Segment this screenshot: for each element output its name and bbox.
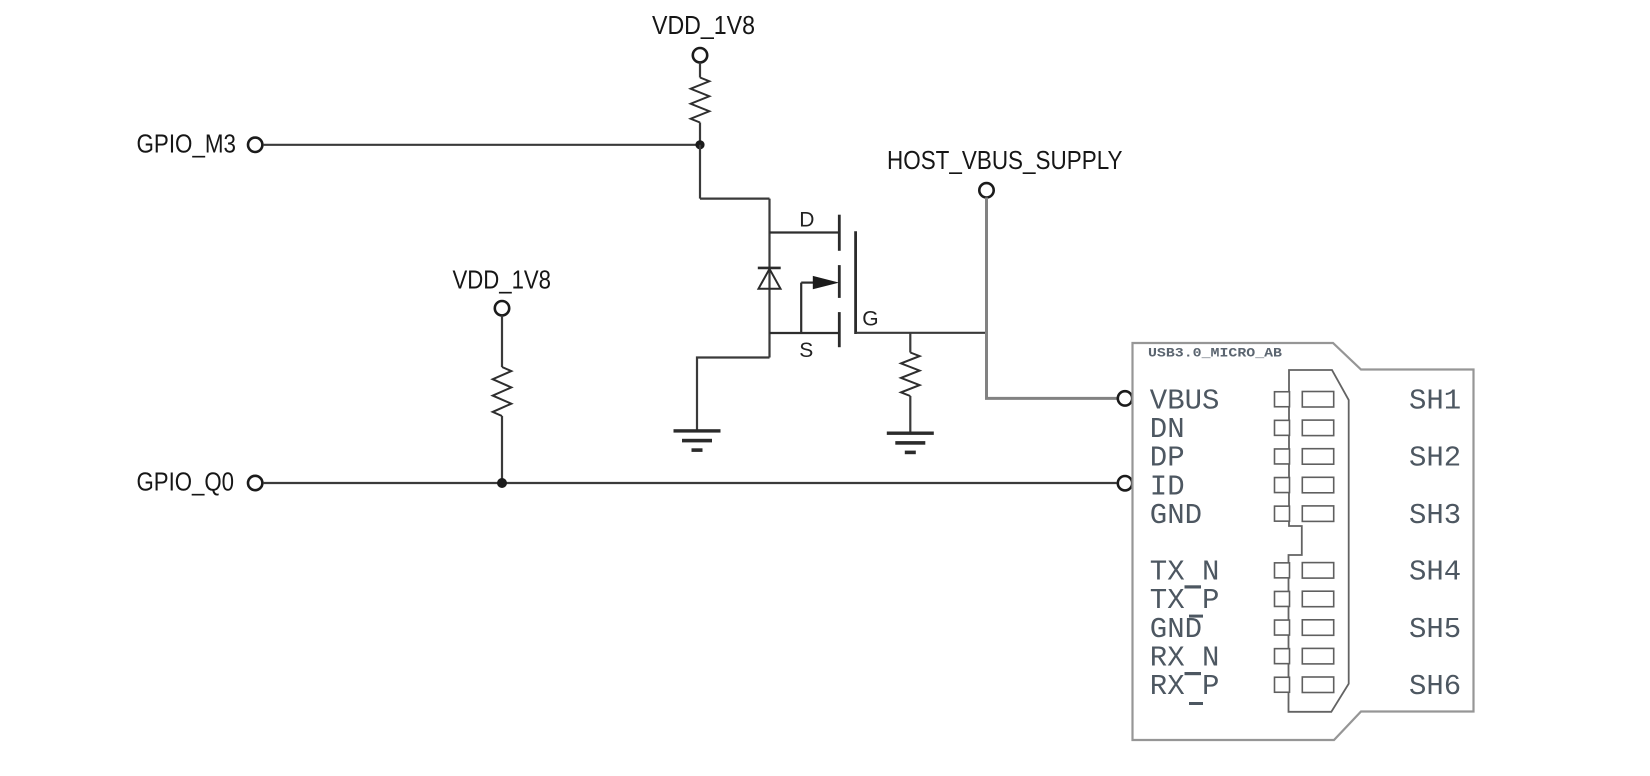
svg-text:SH1: SH1 (1409, 385, 1461, 418)
ground G2 (887, 432, 934, 435)
wire R2 to node B (501, 416, 503, 483)
pin pad DN (1275, 420, 1290, 435)
svg-text:SH2: SH2 (1409, 442, 1461, 475)
svg-text:VDD_1V8: VDD_1V8 (652, 10, 755, 40)
svg-text:S: S (799, 339, 813, 362)
transistor Q1 source lead (770, 332, 840, 334)
power terminal VDD_1V8 (top) (693, 48, 707, 62)
svg-text:GND: GND (1150, 499, 1202, 532)
svg-text:SH4: SH4 (1409, 556, 1461, 589)
wire gate to R3 (909, 333, 911, 353)
svg-text:USB3.0_MICRO_AB: USB3.0_MICRO_AB (1148, 346, 1282, 361)
svg-text:SH5: SH5 (1409, 613, 1461, 646)
wire jog to drain branch (700, 198, 770, 200)
wire gate to HOST_VBUS net (856, 332, 985, 334)
resistor R2 (493, 367, 512, 416)
wire R1 to node A (699, 123, 701, 145)
svg-text:GPIO_M3: GPIO_M3 (137, 128, 237, 158)
svg-text:D: D (799, 209, 814, 232)
pin pad VBUS (1275, 392, 1290, 407)
ground G1 (674, 429, 721, 432)
terminal HOST_VBUS_SUPPLY (979, 183, 993, 197)
resistor R1 (691, 78, 710, 123)
junction node B (497, 478, 507, 488)
pin pad TX_P (1275, 591, 1290, 606)
wire drain-source branch vertical (768, 199, 770, 358)
terminal ID pin (1118, 476, 1132, 490)
power terminal VDD_1V8 (mid) (495, 301, 509, 315)
svg-text:HOST_VBUS_SUPPLY: HOST_VBUS_SUPPLY (887, 145, 1123, 175)
wire source corner to ground (697, 358, 770, 431)
pin pad TX_N (1275, 563, 1290, 578)
svg-text:GPIO_Q0: GPIO_Q0 (137, 467, 235, 497)
pin pad GND (1275, 506, 1290, 521)
pin pad RX_P (1275, 677, 1290, 692)
wire GPIO_M3 to node A (264, 144, 700, 146)
terminal VBUS pin (1118, 391, 1132, 405)
connector J1 body outline (1133, 343, 1474, 740)
pin pad GND2 (1275, 620, 1290, 635)
wire node A down (699, 145, 701, 199)
transistor Q1 drain lead (770, 231, 840, 233)
transistor Q1 gate plate (854, 231, 857, 334)
body diode of Q1 (758, 267, 781, 270)
pin pad RX_N (1275, 649, 1290, 664)
svg-text:VDD_1V8: VDD_1V8 (453, 265, 552, 295)
pin pad ID (1275, 478, 1290, 493)
transistor Q1 channel dashes (838, 215, 841, 251)
svg-text:RX P: RX P (1150, 670, 1220, 703)
resistor R3 (901, 353, 920, 397)
svg-text:SH3: SH3 (1409, 499, 1461, 532)
wire R3 to ground (909, 396, 911, 432)
pin pad DP (1275, 449, 1290, 464)
svg-text:G: G (862, 308, 878, 331)
transistor Q1 substrate arrow (800, 283, 802, 333)
terminal GPIO_Q0 (248, 476, 262, 490)
junction node A (695, 140, 704, 149)
wire GPIO_Q0 to ID pin (264, 482, 1117, 484)
wire VDD_1V8 to R2 (501, 315, 503, 367)
terminal GPIO_M3 (248, 138, 262, 152)
svg-text:SH6: SH6 (1409, 670, 1461, 703)
connector tongue outline (1289, 370, 1349, 712)
wire VDD_1V8 to R1 (699, 62, 701, 77)
wire HOST_VBUS_SUPPLY to VBUS pin (987, 198, 1118, 399)
